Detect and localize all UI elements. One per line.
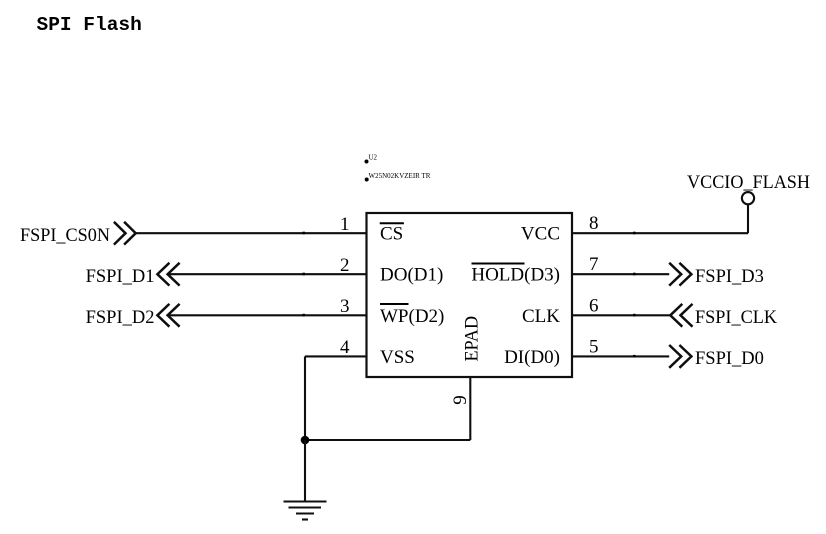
svg-text:FSPI_CS0N: FSPI_CS0N xyxy=(20,226,110,246)
wire pin3 xyxy=(168,314,367,316)
junction tick pin7 wire xyxy=(633,273,636,276)
junction dot node GND xyxy=(301,436,310,445)
svg-text:FSPI_CLK: FSPI_CLK xyxy=(695,308,778,328)
value W25N02KVZEIR TR xyxy=(365,172,431,182)
wire pin5 xyxy=(572,355,669,357)
power symbol circle VCCIO_FLASH xyxy=(742,192,754,204)
svg-text:WP(D2): WP(D2) xyxy=(380,306,444,327)
wire pin2 xyxy=(168,273,367,275)
wire pin6 xyxy=(572,314,670,316)
svg-text:7: 7 xyxy=(589,254,599,275)
wire pin4 horizontal xyxy=(305,355,367,357)
svg-text:FSPI_D2: FSPI_D2 xyxy=(86,308,155,328)
svg-text:FSPI_D0: FSPI_D0 xyxy=(695,349,764,369)
svg-text:9: 9 xyxy=(450,395,471,405)
port chevron out FSPI_D0 xyxy=(669,345,691,368)
junction tick pin5 wire xyxy=(633,355,636,358)
port chevron out FSPI_D3 xyxy=(669,263,691,286)
wire pin8 xyxy=(572,232,748,234)
svg-text:VCC: VCC xyxy=(521,224,560,245)
svg-text:VSS: VSS xyxy=(380,347,415,368)
wire power vertical xyxy=(747,204,749,233)
svg-text:EPAD: EPAD xyxy=(462,316,483,362)
svg-text:U2: U2 xyxy=(369,154,378,162)
svg-text:CLK: CLK xyxy=(522,306,560,327)
svg-text:VCCIO_FLASH: VCCIO_FLASH xyxy=(687,173,810,193)
port chevron in FSPI_D2 xyxy=(157,304,179,327)
svg-text:FSPI_D3: FSPI_D3 xyxy=(695,267,764,287)
junction tick pin3 wire xyxy=(302,314,305,317)
svg-text:8: 8 xyxy=(589,213,599,234)
wire pin7 xyxy=(572,273,669,275)
svg-text:DO(D1): DO(D1) xyxy=(380,265,443,286)
ground symbol xyxy=(284,502,327,520)
wire pin1 xyxy=(136,232,367,234)
svg-text:1: 1 xyxy=(340,214,350,235)
IC U2 body xyxy=(367,213,573,377)
svg-text:6: 6 xyxy=(589,295,599,316)
junction tick pin6 wire xyxy=(633,314,636,317)
junction tick pin1 wire xyxy=(302,232,305,235)
pin 1 name CS (active low) xyxy=(380,223,404,244)
svg-text:2: 2 xyxy=(340,255,350,276)
junction tick pin2 wire xyxy=(302,273,305,276)
svg-text:CS: CS xyxy=(380,224,403,245)
port chevron out FSPI_CS0N xyxy=(114,222,136,245)
svg-text:W25N02KVZEIR TR: W25N02KVZEIR TR xyxy=(369,172,431,180)
svg-text:HOLD(D3): HOLD(D3) xyxy=(471,265,560,286)
svg-text:3: 3 xyxy=(340,296,350,317)
wire pin4 vertical down xyxy=(304,356,306,440)
wire pin9 vertical xyxy=(469,377,471,440)
svg-text:4: 4 xyxy=(340,337,350,358)
pin 3 name WP(D2) (WP active low) xyxy=(380,304,444,327)
wire ground stem xyxy=(304,440,306,502)
svg-text:FSPI_D1: FSPI_D1 xyxy=(86,267,155,287)
svg-text:5: 5 xyxy=(589,336,599,357)
wire ground horizontal xyxy=(305,439,470,441)
pin 7 name HOLD(D3) (HOLD active low) xyxy=(471,264,560,286)
svg-text:DI(D0): DI(D0) xyxy=(504,347,560,368)
refdes U2 xyxy=(365,154,378,164)
svg-text:SPI Flash: SPI Flash xyxy=(37,14,142,36)
port chevron in FSPI_D1 xyxy=(157,263,179,286)
port chevron in FSPI_CLK xyxy=(670,304,692,327)
junction tick pin8 wire xyxy=(633,232,636,235)
